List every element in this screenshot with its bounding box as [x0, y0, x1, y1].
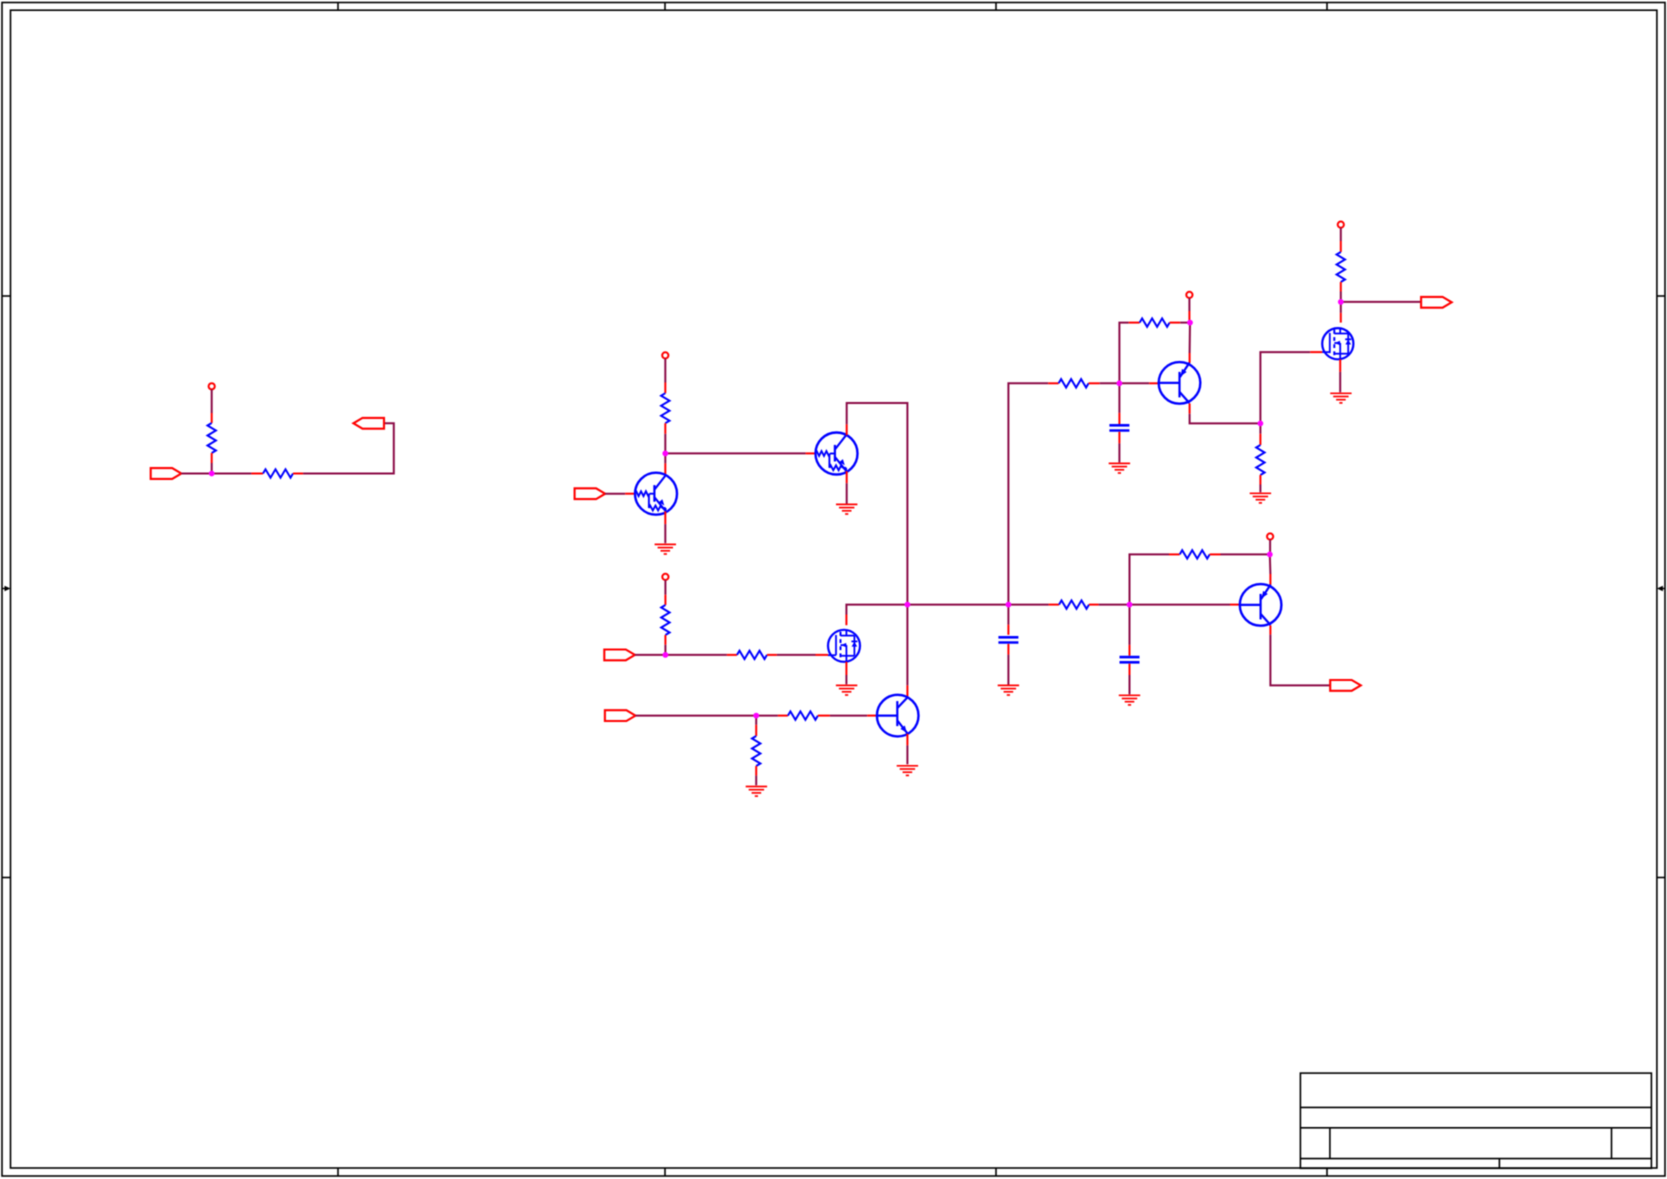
pin stub C3 bottom: [1129, 664, 1131, 675]
resistor R13: [1256, 445, 1264, 475]
wire R11 to node B: [1099, 604, 1130, 606]
wire IN4 to node G: [636, 715, 757, 717]
transistor M1 NMOS: [828, 630, 860, 662]
border zone tick bottom 2: [664, 1168, 666, 1176]
pin stub R10 left: [1129, 322, 1140, 324]
wire J2 to Q1 collector: [664, 453, 666, 463]
pin stub C1 top: [1118, 413, 1120, 424]
power pin VCC6: [1338, 222, 1344, 228]
node K junction: [905, 602, 911, 608]
pin stub R3 top: [664, 595, 666, 605]
pin stub Q2 collector: [846, 424, 848, 435]
pin stub R15 bottom: [1340, 282, 1342, 292]
title block bottom divider: [1498, 1159, 1500, 1169]
power pin VCC5: [1267, 533, 1273, 539]
wire J1 to R4: [212, 473, 252, 475]
pin stub Q1 base: [625, 493, 635, 495]
pin stub R8 top: [755, 725, 757, 736]
wire F up to R10: [1119, 323, 1128, 384]
wire B up to R12: [1130, 554, 1170, 604]
pin stub Q5 base: [1230, 604, 1240, 606]
capacitor C3: [1120, 657, 1140, 662]
wire IN2 to Q1 base: [605, 493, 625, 495]
pin stub R8 bottom: [755, 766, 757, 776]
sheet centre arrow right: [1660, 588, 1665, 590]
wire C3 to ground: [1129, 675, 1131, 694]
wire Q2 collector to node K: [847, 403, 908, 605]
wire G down to R8: [755, 716, 757, 725]
resistor R2: [661, 393, 669, 423]
resistor R9: [1059, 379, 1089, 387]
resistor R15: [1337, 252, 1345, 282]
pin stub R7 left: [778, 715, 788, 717]
pin stub R9 left: [1048, 382, 1058, 384]
pin stub R12 right: [1210, 553, 1221, 555]
pin stub Q1 emitter: [664, 511, 666, 524]
wire VCC2 to R2: [664, 359, 666, 383]
resistor R11: [1059, 600, 1089, 608]
wire M1 drain to node K and node A: [846, 605, 1008, 615]
pin stub Q3 emitter: [906, 734, 908, 746]
title block row line 3: [1300, 1158, 1651, 1160]
pin stub C3 top: [1129, 645, 1131, 656]
wire VCC5 to node C: [1269, 540, 1271, 555]
node D junction: [1258, 421, 1264, 427]
transistor Q1 digital NPN: [635, 473, 677, 515]
border zone tick top 4: [1326, 3, 1328, 11]
wire Q3 emitter to ground: [906, 745, 908, 764]
wire C2 to ground: [1007, 655, 1009, 685]
ground Q1 emitter: [655, 544, 676, 554]
wire VCC6 to R15: [1340, 228, 1342, 241]
pin stub Q5 emitter: [1269, 574, 1271, 585]
wire node M to M2 drain: [1340, 302, 1342, 313]
pin stub R6 right: [767, 654, 777, 656]
wire node A up to R9: [1008, 383, 1048, 604]
power pin VCC2: [662, 352, 668, 358]
wire VCC3 to R3: [664, 580, 666, 595]
transistor Q2 digital NPN: [816, 433, 858, 475]
transistor Q3 NPN: [877, 695, 919, 737]
wire Q5 collector to port OUT2: [1270, 635, 1330, 686]
pin stub Q5 collector: [1269, 625, 1271, 634]
wire F to Q4 base: [1119, 382, 1149, 384]
wire R6 to M1 gate: [777, 654, 816, 656]
wire R9 to node F: [1100, 382, 1120, 384]
title block row line 1: [1300, 1106, 1651, 1108]
border zone tick right 1: [1657, 295, 1665, 297]
border zone tick top 3: [995, 3, 997, 11]
ground C3: [1119, 695, 1140, 705]
port IN4: [605, 710, 636, 721]
node J3 junction: [663, 652, 669, 658]
pin stub M1 drain: [845, 615, 847, 626]
border zone tick bottom 1: [337, 1168, 339, 1176]
pin stub R2 top: [664, 383, 666, 394]
node M junction: [1338, 299, 1344, 305]
wire F down to C1: [1118, 383, 1120, 413]
wire B down to C3: [1129, 605, 1131, 645]
node F junction: [1117, 380, 1123, 386]
ground Q2 emitter: [836, 504, 857, 514]
wire R7 to Q3 base: [830, 715, 867, 717]
pin stub M1 gate: [816, 654, 829, 656]
title block divider right: [1611, 1128, 1613, 1159]
pin stub R9 right: [1089, 382, 1100, 384]
pin stub Q4 emitter: [1189, 353, 1191, 363]
wire C1 to ground: [1118, 443, 1120, 462]
border zone tick top 2: [664, 3, 666, 11]
pin stub R13 bottom: [1259, 475, 1261, 485]
wire R8 to ground: [755, 776, 757, 786]
wire E to Q4 emitter: [1189, 323, 1191, 353]
pin stub C2 top: [1007, 625, 1009, 635]
wire C2 from node A down: [1007, 605, 1009, 625]
pin stub R1 bottom: [211, 453, 213, 463]
pin stub Q1 collector: [664, 463, 666, 475]
pin stub R15 top: [1340, 241, 1342, 252]
pin stub R11 right: [1089, 604, 1099, 606]
wire D up to M2 gate: [1260, 352, 1310, 423]
wire J2 to Q2 base: [665, 452, 805, 454]
port IN2: [575, 488, 606, 499]
border zone tick top 1: [337, 3, 339, 11]
sheet centre arrow left: [2, 588, 7, 590]
wire R3 to node J3: [664, 645, 666, 655]
title block outline: [1300, 1073, 1651, 1168]
capacitor C2: [998, 637, 1018, 642]
power pin VCC1: [209, 383, 215, 389]
wire node M to port OUT3: [1341, 301, 1421, 303]
ground Q3 emitter: [897, 766, 918, 776]
pin stub Q4 base: [1149, 382, 1159, 384]
ground R8: [746, 787, 767, 797]
power pin VCC4: [1186, 292, 1192, 298]
wire J3 to R6: [665, 654, 727, 656]
resistor R4: [263, 469, 293, 477]
wire R4 to port OUT1: [303, 423, 394, 473]
resistor R6: [737, 651, 767, 659]
wire VCC1 to R1: [211, 389, 213, 413]
node C junction: [1267, 552, 1273, 558]
capacitor C1: [1109, 425, 1129, 430]
node B junction: [1127, 602, 1133, 608]
pin stub R3 bottom: [664, 635, 666, 645]
transistor M2 NMOS: [1322, 328, 1353, 359]
pin stub Q4 collector: [1189, 403, 1191, 413]
pin stub R4 left: [251, 473, 263, 475]
wire node A to R11: [1008, 604, 1048, 606]
wire M1 source to ground: [845, 675, 847, 684]
pin stub node E top: [1188, 311, 1190, 320]
resistor R3: [661, 605, 669, 635]
port IN3: [604, 650, 635, 661]
pin stub R11 left: [1049, 604, 1059, 606]
resistor R10: [1140, 318, 1170, 326]
wire VCC4 to node E: [1188, 298, 1190, 311]
ground M2 source: [1330, 393, 1351, 403]
node J2 junction: [662, 451, 668, 457]
title block divider left: [1329, 1128, 1331, 1159]
pin stub R4 right: [293, 473, 303, 475]
wire C to Q5 emitter: [1269, 554, 1272, 574]
ground C1: [1109, 463, 1130, 473]
wire node K down to Q3 collector: [906, 605, 908, 686]
node A junction: [1006, 602, 1012, 608]
transistor Q4 PNP: [1159, 362, 1201, 404]
wire IN1 to node J1: [181, 473, 211, 475]
wire Q1 emitter to ground: [664, 524, 666, 543]
border zone tick left 2: [2, 877, 11, 879]
wire IN3 to node J3: [635, 654, 666, 656]
resistor R7: [788, 711, 818, 719]
resistor R12: [1180, 550, 1210, 558]
wire Q2 emitter to ground: [846, 483, 848, 503]
transistor Q5 PNP: [1240, 584, 1282, 626]
pin stub M1 source: [845, 662, 847, 675]
pin stub M2 drain: [1340, 313, 1342, 323]
pin stub Q3 collector: [906, 685, 908, 697]
ground M1 source: [836, 685, 857, 695]
border zone tick left 1: [2, 295, 11, 297]
wire R2 to node J2: [664, 434, 666, 454]
wire R1 to node J1: [211, 463, 213, 474]
wire B to Q5 base: [1130, 604, 1231, 606]
port OUT1: [353, 418, 384, 429]
ground R13: [1250, 493, 1271, 503]
ground C2: [998, 685, 1019, 695]
pin stub M2 gate: [1310, 351, 1322, 353]
pin stub R1 top: [211, 413, 213, 423]
pin stub R7 right: [818, 715, 830, 717]
wire R13 to ground: [1259, 485, 1261, 493]
port OUT3: [1421, 297, 1452, 308]
wire R10 to node E: [1180, 322, 1190, 324]
resistor R1: [208, 423, 216, 453]
wire D down to R13: [1259, 423, 1261, 433]
pin stub Q2 base: [806, 452, 816, 454]
pin stub C2 bottom: [1007, 644, 1009, 655]
power pin VCC3: [662, 574, 668, 580]
pin stub R6 left: [727, 654, 737, 656]
node G junction: [753, 713, 759, 719]
pin stub Q3 base: [867, 715, 877, 717]
pin stub R13 top: [1259, 434, 1261, 445]
title block row line 2: [1300, 1127, 1651, 1129]
pin stub C1 bottom: [1118, 432, 1120, 444]
pin stub M2 source: [1339, 359, 1341, 372]
node J1 junction: [209, 471, 215, 477]
pin stub Q2 emitter: [846, 471, 848, 483]
node E junction: [1187, 320, 1193, 326]
port OUT2: [1330, 680, 1361, 691]
resistor R8: [752, 736, 760, 766]
pin stub R2 bottom: [664, 423, 666, 434]
wire M2 source to ground: [1339, 372, 1341, 392]
border zone tick bottom 3: [995, 1168, 997, 1176]
wire R15 to node M: [1340, 292, 1342, 302]
wire Q4 collector to node D: [1190, 414, 1261, 424]
border zone tick right 2: [1657, 877, 1665, 879]
port IN1: [151, 468, 182, 479]
pin stub R10 right: [1170, 322, 1181, 324]
wire R12 to node C: [1221, 553, 1270, 555]
border zone tick bottom 4: [1326, 1168, 1328, 1176]
pin stub R12 left: [1169, 553, 1180, 555]
wire G to R7: [756, 715, 778, 717]
